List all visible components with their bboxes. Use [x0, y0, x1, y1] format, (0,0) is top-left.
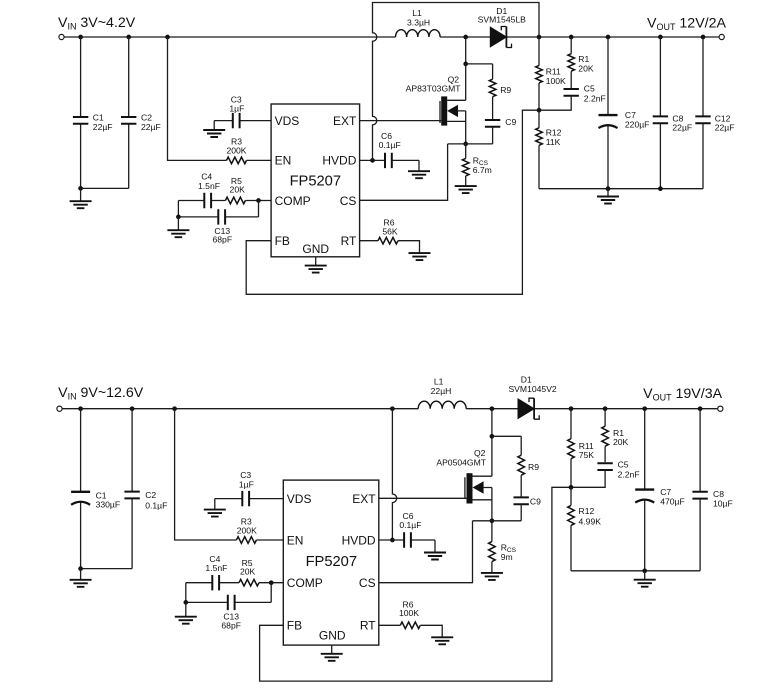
junction rail-R1: [603, 406, 608, 411]
svg-text:R9: R9: [500, 85, 511, 95]
svg-text:C2: C2: [141, 113, 152, 123]
svg-text:0.1µF: 0.1µF: [399, 520, 421, 530]
wire FB feedback loop: [260, 487, 571, 681]
svg-text:FP5207: FP5207: [306, 554, 357, 570]
wire EXT to Q2 gate: [360, 120, 442, 122]
svg-text:C9: C9: [505, 117, 516, 127]
resistor R12: [568, 487, 602, 571]
svg-text:C2: C2: [145, 490, 156, 500]
svg-text:GND: GND: [319, 629, 346, 643]
junction rail-C8: [698, 406, 703, 411]
svg-text:FB: FB: [275, 234, 290, 248]
svg-text:68pF: 68pF: [221, 621, 241, 631]
svg-text:EXT: EXT: [352, 492, 376, 506]
wire VIN rail: [64, 36, 719, 38]
wire RT row: [360, 241, 420, 253]
junction rail-C2: [130, 406, 135, 411]
svg-text:20K: 20K: [578, 63, 594, 73]
svg-text:22µH: 22µH: [431, 386, 452, 396]
svg-text:200K: 200K: [226, 145, 246, 155]
resistor R5: [239, 579, 259, 586]
ground R6: [431, 637, 453, 644]
svg-text:L1: L1: [434, 377, 444, 387]
junction rail-EN: [172, 406, 177, 411]
capacitor C9: [485, 117, 517, 144]
svg-text:22µF: 22µF: [672, 123, 692, 133]
junction rail-C7: [606, 35, 611, 40]
svg-text:C5: C5: [618, 460, 629, 470]
svg-text:1.5nF: 1.5nF: [198, 181, 220, 191]
wire source node: [448, 143, 493, 145]
svg-text:20K: 20K: [613, 437, 629, 447]
junction Q2drain-R9: [463, 62, 468, 67]
ground input: [80, 569, 82, 580]
ground C3: [213, 121, 215, 130]
capacitor C2: [121, 37, 161, 188]
svg-text:C9: C9: [530, 497, 541, 507]
junction C13-gnd: [183, 600, 188, 605]
ground output: [607, 189, 609, 197]
wire drain to R9: [492, 435, 521, 437]
junction rail-Q2drain: [463, 35, 468, 40]
svg-text:0.1µF: 0.1µF: [145, 501, 167, 511]
capacitor C7 polarized: [635, 409, 685, 571]
wire HVDD link with hop: [392, 409, 396, 540]
junction Q2source: [490, 518, 495, 523]
svg-text:R11: R11: [546, 67, 561, 77]
capacitor C6: [404, 532, 411, 547]
wire VDS row: [215, 498, 283, 500]
svg-text:22µF: 22µF: [93, 122, 113, 132]
junction rail-C2: [126, 35, 131, 40]
svg-text:R12: R12: [546, 128, 562, 138]
capacitor C12: [695, 37, 734, 189]
junction rail-R1: [569, 35, 574, 40]
junction C1-gnd: [78, 186, 83, 191]
capacitor C8: [692, 409, 732, 571]
terminal VOUT2: [718, 406, 723, 411]
junction COMP-C13: [256, 198, 261, 203]
junction C1-gnd: [78, 566, 83, 571]
capacitor C3: [242, 491, 249, 506]
svg-text:100K: 100K: [399, 608, 419, 618]
junction C13-gnd: [176, 215, 181, 220]
svg-text:SVM1045V2: SVM1045V2: [508, 384, 556, 394]
junction C7-gnd: [606, 186, 611, 191]
ground R6: [409, 253, 431, 260]
wire C13 branch: [178, 201, 258, 217]
wire COMP row: [178, 200, 271, 202]
resistor R1: [602, 409, 629, 463]
svg-text:VDS: VDS: [275, 114, 300, 128]
ground IC GND pin: [331, 645, 333, 654]
junction rail-C12: [701, 35, 706, 40]
svg-text:CS: CS: [340, 194, 357, 208]
capacitor C13: [228, 595, 235, 610]
svg-text:EXT: EXT: [333, 114, 357, 128]
terminal VIN2: [57, 406, 62, 411]
transistor Q2 AP0504GMT: [436, 409, 492, 521]
svg-text:C5: C5: [584, 83, 595, 93]
svg-text:1.5nF: 1.5nF: [205, 563, 227, 573]
svg-text:L1: L1: [412, 8, 422, 18]
svg-text:9m: 9m: [501, 552, 513, 562]
svg-text:R12: R12: [579, 506, 595, 516]
svg-text:0.1µF: 0.1µF: [379, 140, 401, 150]
resistor R11: [568, 409, 595, 488]
svg-text:6.7m: 6.7m: [473, 165, 492, 175]
svg-text:GND: GND: [302, 242, 329, 256]
junction COMP-C13: [269, 580, 274, 585]
svg-text:AP83T03GMT: AP83T03GMT: [406, 83, 462, 93]
svg-text:EN: EN: [275, 154, 292, 168]
svg-text:2.2nF: 2.2nF: [618, 470, 640, 480]
wire EN from rail: [175, 409, 284, 540]
junction rail-R11: [569, 406, 574, 411]
diode D1: [518, 398, 539, 419]
svg-text:HVDD: HVDD: [342, 533, 376, 547]
wire EN from rail: [168, 37, 272, 160]
svg-text:FB: FB: [287, 619, 302, 633]
resistor R5: [225, 197, 245, 204]
capacitor C4: [204, 193, 211, 208]
ground RCS: [455, 186, 477, 193]
resistor R12: [536, 110, 562, 189]
diode D1: [490, 27, 511, 48]
resistor R9: [518, 436, 539, 497]
svg-text:COMP: COMP: [275, 194, 311, 208]
junction Q2drain-R9: [490, 434, 495, 439]
svg-text:RT: RT: [360, 619, 376, 633]
wire VDS row: [214, 120, 271, 122]
wire RT row: [379, 625, 442, 637]
svg-text:C3: C3: [240, 470, 251, 480]
svg-text:EN: EN: [287, 533, 304, 547]
junction rail-HVDD link: [390, 406, 395, 411]
ground COMP: [185, 602, 187, 616]
svg-text:RT: RT: [341, 234, 357, 248]
svg-text:D1: D1: [521, 374, 532, 384]
IC U1 FP5207: [271, 104, 360, 257]
capacitor C1 polarized: [71, 409, 120, 569]
svg-text:75K: 75K: [579, 450, 595, 460]
terminal VOUT1: [719, 34, 724, 39]
svg-text:68pF: 68pF: [213, 235, 233, 245]
capacitor C5: [571, 460, 640, 488]
junction rail-EN: [165, 35, 170, 40]
wire CS to Q2 source: [360, 144, 448, 200]
junction rail-C1: [78, 35, 83, 40]
svg-text:22µF: 22µF: [715, 123, 735, 133]
svg-text:330µF: 330µF: [96, 500, 121, 510]
capacitor C3: [233, 113, 240, 128]
ground RCS: [481, 573, 503, 580]
junction C8-gnd: [658, 186, 663, 191]
wire HVDD row: [360, 160, 419, 171]
wire HVDD row: [379, 540, 435, 553]
wire C1-C2 ground bus: [81, 187, 129, 189]
ground C3: [214, 499, 216, 510]
wire C13 branch: [186, 583, 271, 603]
resistor R6: [378, 237, 398, 244]
ground COMP: [177, 217, 179, 230]
resistor R6: [400, 622, 420, 629]
svg-text:20K: 20K: [230, 185, 246, 195]
svg-text:COMP: COMP: [287, 576, 323, 590]
svg-text:2.2nF: 2.2nF: [584, 93, 606, 103]
svg-text:FP5207: FP5207: [290, 173, 341, 189]
capacitor C5: [539, 83, 606, 110]
svg-text:3.3µH: 3.3µH: [407, 17, 430, 27]
wire EXT to Q2 gate: [379, 497, 467, 499]
wire CS to Q2 source: [379, 521, 473, 583]
svg-text:20K: 20K: [240, 567, 256, 577]
junction C7-gnd: [642, 568, 647, 573]
junction rail-Q2drain: [490, 406, 495, 411]
wire C1-C2 ground bus: [81, 568, 133, 570]
svg-text:R9: R9: [528, 462, 539, 472]
capacitor C7: [599, 37, 650, 189]
svg-text:VDS: VDS: [287, 492, 312, 506]
wire FB feedback loop: [246, 110, 539, 294]
wire output ground bus: [539, 188, 703, 190]
junction rail-C7: [642, 406, 647, 411]
inductor L1: [396, 30, 441, 37]
svg-text:1µF: 1µF: [239, 480, 254, 490]
wire drain to R9: [466, 63, 493, 65]
svg-text:1µF: 1µF: [229, 103, 244, 113]
ground output: [644, 571, 646, 580]
capacitor C2: [124, 409, 167, 569]
transistor Q2 AP83T03GMT: [406, 37, 466, 144]
capacitor C9: [514, 497, 542, 521]
svg-text:VIN 3V~4.2V: VIN 3V~4.2V: [58, 15, 136, 32]
wire output ground bus: [571, 570, 700, 572]
svg-text:200K: 200K: [237, 525, 257, 535]
svg-text:VOUT 19V/3A: VOUT 19V/3A: [643, 386, 722, 403]
IC U2 FP5207: [283, 480, 379, 645]
svg-text:HVDD: HVDD: [322, 154, 356, 168]
junction rail-D1-out: [537, 35, 542, 40]
resistor R3: [227, 157, 247, 164]
ground input: [80, 188, 82, 201]
capacitor C1: [73, 37, 113, 188]
junction rail-C8: [658, 35, 663, 40]
ground C6: [424, 553, 446, 560]
resistor R1: [568, 37, 594, 89]
junction HVDD: [390, 538, 395, 543]
wire VIN rail bottom: [62, 408, 718, 410]
resistor R9: [489, 64, 511, 119]
ground C6: [408, 171, 430, 178]
junction FB node: [537, 108, 542, 113]
junction FB node: [569, 485, 574, 490]
terminal VIN1: [59, 34, 64, 39]
svg-text:4.99K: 4.99K: [579, 517, 602, 527]
svg-text:VIN 9V~12.6V: VIN 9V~12.6V: [58, 385, 144, 402]
capacitor C6: [385, 153, 392, 168]
capacitor C13: [218, 209, 225, 224]
svg-text:10µF: 10µF: [713, 498, 733, 508]
svg-text:C1: C1: [93, 113, 104, 123]
junction rail-C1: [78, 406, 83, 411]
resistor RCS: [489, 521, 517, 573]
svg-text:56K: 56K: [382, 227, 398, 237]
inductor L1: [418, 401, 466, 409]
capacitor C4: [212, 575, 219, 590]
svg-text:22µF: 22µF: [141, 122, 161, 132]
svg-text:100K: 100K: [546, 76, 566, 86]
svg-text:AP0504GMT: AP0504GMT: [436, 457, 486, 467]
junction HVDD-link: [370, 158, 375, 163]
svg-text:CS: CS: [359, 576, 376, 590]
wire HVDD-VOUT link with hops: [373, 3, 540, 161]
resistor R3: [236, 537, 256, 544]
resistor RCS: [462, 144, 491, 186]
junction Q2source: [463, 142, 468, 147]
wire COMP row: [186, 582, 283, 584]
svg-text:470µF: 470µF: [660, 496, 685, 506]
capacitor C8: [653, 37, 692, 189]
svg-text:SVM1545LB: SVM1545LB: [478, 15, 527, 25]
wire source node: [473, 520, 522, 522]
ground IC GND pin: [315, 257, 317, 266]
svg-text:VOUT 12V/2A: VOUT 12V/2A: [647, 15, 726, 32]
resistor R11: [536, 37, 566, 110]
svg-text:11K: 11K: [546, 137, 561, 147]
svg-text:220µF: 220µF: [625, 119, 650, 129]
